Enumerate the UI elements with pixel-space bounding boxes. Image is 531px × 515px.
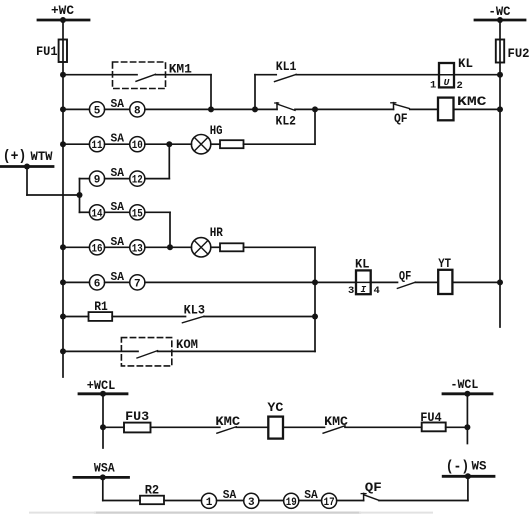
svg-text:-WCL: -WCL — [451, 378, 479, 392]
svg-text:3: 3 — [348, 285, 354, 297]
lamp HG — [191, 135, 210, 154]
svg-text:HG: HG — [210, 124, 223, 138]
wire 10 to lamp HG — [145, 143, 192, 145]
label SA bottom right — [304, 488, 318, 502]
terminal circle 13 — [130, 240, 145, 255]
wire between 6 and 7 — [105, 281, 130, 283]
pin 3 label — [348, 285, 354, 297]
wire R1 to KL3 — [112, 316, 185, 318]
label YC — [267, 401, 284, 415]
terminal circle 5 — [89, 102, 104, 117]
svg-text:8: 8 — [134, 105, 141, 117]
svg-text:KL1: KL1 — [276, 59, 297, 74]
wire QF to YT coil — [416, 281, 439, 283]
contact KL2 tick — [276, 103, 278, 110]
wire WSA to R2 — [103, 500, 140, 502]
svg-text:16: 16 — [92, 243, 103, 255]
junction left bus row 16-13 — [60, 244, 66, 250]
wire row R1 from bus — [63, 316, 89, 318]
wire WTW horizontal feed — [27, 194, 80, 196]
svg-text:9: 9 — [94, 175, 101, 187]
wire WS up — [467, 476, 469, 500]
label YT — [438, 257, 451, 271]
wire WTW riser 9 to 14 — [79, 179, 81, 213]
junction WTW bus — [24, 164, 30, 170]
label KL (3-4) — [355, 256, 370, 271]
label SA row 5-8 — [111, 97, 125, 111]
svg-text:HR: HR — [210, 226, 224, 240]
wire 19 to 17 — [299, 500, 322, 502]
label KL1 — [276, 59, 297, 74]
junction +WCL bus — [100, 391, 106, 397]
wire KM1 drop to row 5-8 — [210, 75, 212, 110]
terminal circle 17 — [322, 493, 337, 508]
bottom scan smear — [95, 511, 360, 513]
wire FU3 to KMC contact — [151, 426, 220, 428]
junction KL1 riser — [252, 106, 258, 112]
wire KL3 to drop — [204, 316, 315, 318]
svg-text:1: 1 — [430, 80, 436, 92]
label FU3 — [125, 410, 149, 424]
junction WTW feed — [77, 192, 83, 198]
svg-text:KL: KL — [355, 256, 370, 271]
wire QF to KMC coil — [410, 108, 438, 110]
svg-text:QF: QF — [399, 269, 411, 283]
wire between 14 and 15 — [105, 211, 130, 213]
wire between 16 and 13 — [105, 246, 130, 248]
node -WCL label — [451, 378, 479, 392]
wire KMC contact to YC — [236, 426, 268, 428]
label KMC — [457, 94, 487, 109]
wire row KM1 left — [63, 74, 137, 76]
fuse FU3 — [124, 423, 151, 433]
terminal circle 8 — [130, 102, 145, 117]
wire drop 282-351 — [314, 282, 316, 351]
wire drop 212-247 — [169, 212, 171, 247]
label KL3 — [184, 303, 206, 318]
label QF (bottom) — [365, 481, 382, 495]
svg-text:(+): (+) — [3, 148, 27, 165]
pin 2 label — [457, 80, 463, 92]
node +WC label — [51, 3, 74, 18]
junction -WC bus — [497, 17, 503, 23]
contact KOM slant — [137, 351, 158, 358]
contactor KM1 dashed enclosure — [113, 62, 166, 89]
svg-text:R1: R1 — [94, 300, 108, 314]
svg-text:KMC: KMC — [457, 94, 487, 109]
label R2 — [145, 484, 160, 498]
junction WSA bus — [100, 474, 106, 480]
svg-text:FU3: FU3 — [125, 410, 149, 424]
relay KL contact pins 3-4 box — [356, 270, 371, 294]
wire 13 to lamp HR — [145, 246, 192, 248]
wire YT to right bus — [452, 281, 500, 283]
label FU2 — [508, 46, 530, 61]
contact KL2 slant — [277, 104, 295, 110]
contact KL1 slant — [275, 74, 297, 81]
label FU1 — [36, 44, 58, 59]
resistor R2 — [140, 496, 164, 505]
wire row KOM left — [63, 350, 138, 352]
wire row 5-8 to KL2 — [145, 108, 277, 110]
junction right bus row KMC — [497, 106, 503, 112]
wire right bus vertical — [499, 20, 501, 327]
svg-text:-WC: -WC — [489, 4, 511, 19]
svg-text:15: 15 — [132, 208, 143, 220]
wire row KM1 right — [156, 74, 212, 76]
wire HR resistor to drop — [244, 246, 316, 248]
svg-text:U: U — [444, 77, 450, 88]
resistor after HR — [220, 243, 244, 251]
junction drop row R1 — [312, 314, 318, 320]
wire row 6-7 from bus — [63, 281, 89, 283]
wire HR to resistor — [211, 246, 220, 248]
junction right bus row YT — [497, 279, 503, 285]
pin 1 label — [430, 80, 436, 92]
label KMC (right contact) — [324, 414, 348, 429]
wire riser KL2 row to HG row — [314, 109, 316, 144]
bus bar WS — [443, 475, 494, 478]
fuse FU4 — [422, 423, 446, 432]
junction lamp riser row KL2 — [312, 106, 318, 112]
label SA row 14-15 — [111, 200, 125, 214]
wire +WCL down — [102, 394, 104, 448]
wire 17 to QF — [337, 500, 364, 502]
label KOM — [176, 337, 198, 352]
bus bar -WC — [475, 19, 525, 22]
svg-text:KOM: KOM — [176, 337, 198, 352]
contact KM1 slant — [136, 74, 156, 81]
wire left bus vertical — [62, 20, 64, 377]
wire 12 to riser — [145, 178, 169, 180]
wire WTW down — [26, 167, 28, 196]
junction left bus row KOM — [60, 348, 66, 354]
node (+) WTW label — [3, 148, 53, 165]
coil YT — [438, 270, 452, 294]
wire between 11 and 10 — [105, 143, 130, 145]
junction +WC bus — [60, 17, 66, 23]
pin 4 label — [374, 285, 380, 297]
wire row 11-10 from bus — [63, 143, 89, 145]
svg-text:12: 12 — [132, 175, 143, 187]
wire 7 to KL box — [145, 281, 356, 283]
wire -WCL down — [466, 394, 468, 444]
wire KL1 branch right — [296, 74, 439, 76]
label SA bottom left — [223, 488, 237, 502]
svg-text:+WCL: +WCL — [87, 379, 116, 393]
terminal circle 9 — [89, 171, 104, 186]
contact KMC slant (right) — [323, 426, 345, 433]
bus bar WSA — [74, 476, 129, 479]
contact QF slant (bottom) — [364, 495, 379, 501]
svg-text:11: 11 — [92, 140, 103, 152]
contact KMC slant (left) — [217, 427, 236, 434]
junction +WCL row YC — [100, 424, 106, 430]
svg-text:KL3: KL3 — [184, 303, 206, 318]
svg-text:YC: YC — [267, 401, 284, 415]
relay KL coil pins 1-2 box — [439, 63, 454, 87]
junction KM1 drop — [208, 106, 214, 112]
svg-text:FU1: FU1 — [36, 44, 58, 59]
contact QF slant (row YT) — [397, 282, 415, 288]
label QF (row YT) — [399, 269, 411, 283]
svg-text:6: 6 — [94, 278, 101, 290]
label SA row 9-12 — [111, 166, 125, 180]
terminal circle 19 — [284, 493, 299, 508]
bus bar -WCL — [443, 392, 492, 395]
wire QF to WS — [379, 500, 468, 502]
wire KMC contact to FU4 — [345, 426, 422, 428]
wire 14 left stub — [80, 211, 90, 213]
wire drop 247-282 — [314, 247, 316, 282]
wire KL coil to right bus — [454, 74, 500, 76]
svg-text:14: 14 — [92, 208, 103, 220]
svg-text:13: 13 — [132, 243, 143, 255]
resistor R1 — [89, 312, 113, 321]
label QF (row KMC) — [394, 112, 408, 126]
wire 15 to drop — [145, 211, 170, 213]
label SA row 11-10 — [111, 132, 125, 146]
wire FU4 to -WCL — [446, 426, 468, 428]
svg-text:R2: R2 — [145, 484, 160, 498]
terminal circle 1 — [201, 493, 216, 508]
wire HG to resistor — [211, 143, 220, 145]
contact QF slant (row KMC) — [394, 104, 410, 109]
fuse FU2 — [496, 40, 504, 63]
svg-text:(-): (-) — [446, 458, 470, 475]
wire row 5-8 from bus — [63, 108, 89, 110]
svg-text:QF: QF — [365, 481, 382, 495]
svg-text:19: 19 — [286, 497, 297, 509]
wire to FU3 — [103, 426, 124, 428]
wire WSA down — [102, 477, 104, 500]
terminal circle 11 — [89, 137, 104, 152]
junction riser to row 9-12 — [166, 141, 172, 147]
wire KL box to QF — [371, 281, 398, 283]
junction -WCL row YC — [464, 424, 470, 430]
junction left bus row 11-10 — [60, 141, 66, 147]
wire between 9 and 12 — [105, 178, 130, 180]
label SA row 16-13 — [111, 235, 125, 249]
label KL2 — [276, 114, 297, 129]
svg-text:10: 10 — [132, 140, 143, 152]
wire 1 to 3 — [217, 500, 244, 502]
wire row KOM right — [158, 350, 315, 352]
svg-text:WS: WS — [472, 460, 487, 474]
wire between 5 and 8 — [105, 108, 130, 110]
svg-text:WTW: WTW — [31, 150, 53, 164]
node -WC label — [489, 4, 511, 19]
svg-text:QF: QF — [394, 112, 408, 126]
wire riser 144-179 — [168, 144, 170, 178]
junction right bus row KL — [497, 72, 503, 78]
junction WS bus — [465, 473, 471, 479]
label HG — [210, 124, 223, 138]
label HR — [210, 226, 224, 240]
svg-text:5: 5 — [94, 105, 101, 117]
svg-text:KL2: KL2 — [276, 114, 297, 129]
junction lamp drop row 6-7 — [312, 279, 318, 285]
label KL — [458, 56, 473, 71]
junction left bus row 5-8 — [60, 106, 66, 112]
label SA row 6-7 — [111, 270, 125, 284]
label KM1 — [169, 62, 192, 77]
svg-text:3: 3 — [248, 497, 255, 509]
label KMC (left contact) — [215, 414, 240, 429]
node +WCL label — [87, 379, 116, 393]
terminal circle 14 — [89, 205, 104, 220]
terminal circle 3 — [244, 493, 259, 508]
fuse FU1 — [59, 40, 67, 63]
svg-text:+WC: +WC — [51, 3, 74, 18]
svg-text:WSA: WSA — [94, 462, 115, 476]
wire 9 left stub — [80, 178, 90, 180]
relay KOM dashed enclosure — [121, 338, 171, 366]
svg-text:FU4: FU4 — [420, 411, 442, 425]
bus bar +WCL — [79, 392, 127, 395]
label FU4 — [420, 411, 442, 425]
wire KL1 riser — [254, 75, 256, 110]
bus bar +WC — [38, 19, 89, 22]
svg-text:17: 17 — [324, 497, 335, 509]
junction left bus row KM1 — [60, 72, 66, 78]
contactor KMC coil — [438, 98, 454, 121]
terminal circle 10 — [130, 137, 145, 152]
contact QF tick (row KMC) — [393, 103, 395, 110]
wire KL1 branch left — [255, 74, 276, 76]
label R1 — [94, 300, 108, 314]
terminal circle 7 — [130, 275, 145, 290]
svg-text:1: 1 — [206, 497, 213, 509]
junction left bus row R1 — [60, 314, 66, 320]
terminal circle 6 — [89, 275, 104, 290]
svg-text:YT: YT — [438, 257, 451, 271]
svg-text:FU2: FU2 — [508, 46, 530, 61]
wire YC to KMC contact right — [283, 426, 325, 428]
terminal circle 16 — [89, 240, 104, 255]
wire HG resistor to riser — [244, 143, 316, 145]
junction left bus row 6-7 — [60, 279, 66, 285]
wire 3 to 19 — [259, 500, 284, 502]
wire row 16-13 from bus — [63, 246, 89, 248]
node (-) WS label — [446, 458, 487, 475]
coil YC — [268, 417, 283, 439]
junction -WCL bus — [464, 391, 470, 397]
svg-text:7: 7 — [134, 278, 141, 290]
contact KL3 slant — [182, 316, 204, 323]
junction drop from 15 — [167, 244, 173, 250]
svg-text:4: 4 — [374, 285, 380, 297]
node WSA label — [94, 462, 115, 476]
svg-text:KL: KL — [458, 56, 473, 71]
bus bar WTW — [1, 165, 53, 168]
resistor after HG — [220, 140, 244, 148]
terminal circle 12 — [130, 171, 145, 186]
lamp HR — [191, 238, 210, 257]
svg-text:2: 2 — [457, 80, 463, 92]
contact QF tick (bottom) — [363, 493, 365, 500]
wire R2 to circle 1 — [164, 500, 201, 502]
wire KL2 to QF — [295, 108, 394, 110]
wire KMC coil to right bus — [454, 108, 501, 110]
terminal circle 15 — [130, 205, 145, 220]
svg-text:I: I — [361, 284, 367, 295]
